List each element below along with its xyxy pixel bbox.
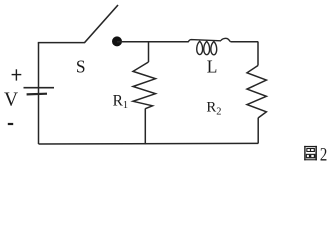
wire node to inductor xyxy=(117,41,189,43)
wire left vertical xyxy=(38,43,40,145)
switch S blade xyxy=(84,5,118,43)
wire inductor to right corner xyxy=(231,41,259,43)
svg-text:V: V xyxy=(4,89,18,110)
svg-text:S: S xyxy=(76,57,86,77)
wire R2 top lead xyxy=(257,42,259,66)
inductor L coil xyxy=(188,38,231,54)
wire top rail left xyxy=(38,42,85,44)
svg-text:R2: R2 xyxy=(206,100,221,118)
svg-text:R1: R1 xyxy=(113,92,128,111)
wire R2 bottom lead xyxy=(257,118,259,144)
battery V short plate xyxy=(27,93,47,96)
resistor R2 zigzag xyxy=(247,66,266,118)
caption figure glyph 圖 xyxy=(304,146,317,160)
label - xyxy=(8,123,13,125)
wire R1 top lead xyxy=(148,42,150,62)
resistor R1 zigzag xyxy=(133,62,156,109)
caption number 2 xyxy=(320,144,327,165)
wire bottom rail xyxy=(39,142,259,145)
battery V long plate xyxy=(24,87,55,89)
svg-text:2: 2 xyxy=(320,144,327,165)
node junction dot xyxy=(112,36,122,46)
label + xyxy=(12,69,22,80)
wire R1 bottom lead xyxy=(144,109,146,145)
svg-text:L: L xyxy=(207,57,218,77)
